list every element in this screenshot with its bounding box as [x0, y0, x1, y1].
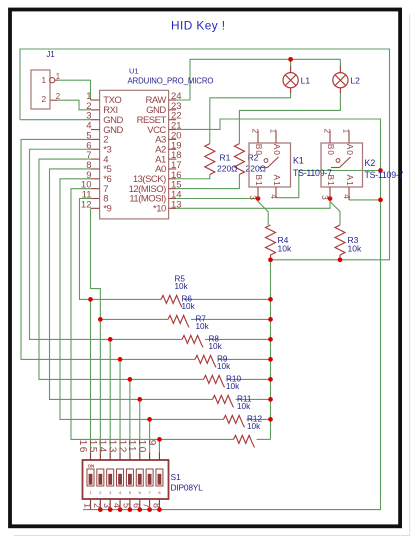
svg-text:*9: *9 — [103, 204, 111, 215]
svg-text:10k: 10k — [247, 422, 261, 431]
svg-text:3: 3 — [320, 195, 329, 200]
svg-text:4: 4 — [342, 194, 351, 199]
svg-text:3: 3 — [102, 503, 112, 508]
svg-text:10k: 10k — [196, 322, 210, 331]
svg-text:A0: A0 — [345, 144, 355, 156]
svg-text:*10: *10 — [153, 204, 166, 215]
svg-text:16: 16 — [77, 440, 88, 454]
svg-text:10k: 10k — [182, 302, 196, 311]
svg-text:6: 6 — [132, 503, 142, 508]
svg-text:15: 15 — [87, 440, 98, 454]
svg-text:S1: S1 — [171, 472, 182, 482]
svg-text:B1: B1 — [326, 175, 336, 187]
svg-text:J1: J1 — [47, 50, 55, 59]
svg-text:10k: 10k — [226, 382, 240, 391]
svg-text:7: 7 — [141, 503, 151, 508]
svg-text:10k: 10k — [237, 402, 251, 411]
svg-text:A0: A0 — [272, 144, 282, 156]
svg-text:2: 2 — [92, 503, 102, 508]
svg-text:10k: 10k — [175, 282, 189, 291]
svg-text:9: 9 — [146, 440, 157, 447]
svg-text:U1: U1 — [129, 67, 139, 76]
svg-text:ON: ON — [88, 463, 95, 468]
svg-text:4: 4 — [269, 194, 278, 199]
svg-text:11: 11 — [126, 440, 137, 453]
svg-text:R1: R1 — [220, 152, 231, 162]
svg-text:TS-1109-7: TS-1109-7 — [365, 170, 404, 180]
svg-text:8: 8 — [151, 503, 161, 508]
svg-text:A1: A1 — [272, 175, 282, 187]
svg-text:2: 2 — [250, 129, 259, 134]
svg-text:10k: 10k — [348, 244, 362, 254]
svg-text:HID Key !: HID Key ! — [171, 19, 226, 33]
svg-text:1: 1 — [41, 75, 46, 85]
svg-text:B0: B0 — [326, 144, 336, 156]
svg-text:12: 12 — [81, 199, 92, 210]
svg-text:2: 2 — [56, 92, 60, 101]
svg-text:5: 5 — [122, 503, 132, 508]
svg-text:K1: K1 — [293, 156, 304, 166]
svg-text:B0: B0 — [254, 144, 264, 156]
svg-text:B1: B1 — [254, 175, 264, 187]
svg-text:L2: L2 — [350, 76, 360, 86]
svg-text:13: 13 — [171, 199, 182, 210]
svg-text:2: 2 — [322, 129, 331, 134]
svg-text:ARDUINO_PRO_MICRO: ARDUINO_PRO_MICRO — [128, 77, 214, 86]
svg-text:1: 1 — [82, 503, 92, 508]
svg-text:L1: L1 — [301, 76, 311, 86]
svg-text:DIP08YL: DIP08YL — [171, 482, 204, 492]
svg-text:4: 4 — [112, 503, 122, 508]
svg-text:1: 1 — [268, 129, 277, 134]
svg-text:10k: 10k — [278, 244, 292, 254]
svg-text:3: 3 — [248, 195, 257, 200]
svg-text:10k: 10k — [217, 362, 231, 371]
svg-text:K2: K2 — [365, 158, 376, 168]
svg-text:12: 12 — [116, 440, 127, 454]
svg-text:1: 1 — [341, 129, 350, 134]
svg-text:2: 2 — [41, 94, 46, 104]
svg-text:10: 10 — [136, 440, 147, 454]
svg-text:14: 14 — [97, 440, 108, 454]
svg-text:A1: A1 — [345, 175, 355, 187]
svg-text:220Ω: 220Ω — [217, 163, 238, 173]
svg-text:10k: 10k — [209, 342, 223, 351]
svg-text:13: 13 — [106, 440, 117, 454]
